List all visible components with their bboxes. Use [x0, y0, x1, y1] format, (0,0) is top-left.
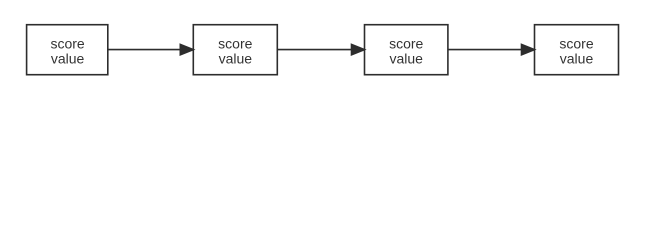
svg-text:score: score — [50, 36, 84, 52]
svg-text:value: value — [219, 51, 253, 67]
svg-text:value: value — [51, 51, 85, 67]
svg-text:value: value — [560, 51, 594, 67]
svg-text:score: score — [218, 36, 252, 52]
svg-text:value: value — [389, 51, 423, 67]
svg-text:score: score — [389, 36, 423, 52]
svg-text:score: score — [559, 36, 593, 52]
